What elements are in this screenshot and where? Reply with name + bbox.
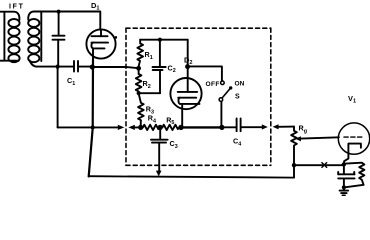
capacitor C3 [159, 127, 161, 139]
wire C1 right to D1 cathode [79, 66, 91, 68]
node Rg bottom tap [292, 163, 296, 167]
capacitor C1 [73, 61, 75, 72]
wire D1 cathode down to bottom rail [89, 59, 93, 177]
ground [340, 190, 349, 192]
svg-text:ON: ON [235, 81, 245, 88]
wire switch feed [188, 66, 222, 80]
cathode V1 [348, 144, 361, 153]
resistor R4 [143, 125, 160, 130]
svg-text:C4: C4 [233, 137, 241, 148]
wire inner top [140, 39, 188, 41]
svg-text:Rg: Rg [299, 124, 308, 135]
node C3 top [158, 125, 163, 130]
capacitor cathode bypass [343, 164, 345, 174]
resistor R1 [137, 40, 143, 67]
stray mark [115, 36, 117, 38]
resistor R3 [138, 95, 144, 125]
svg-text:OFF: OFF [206, 81, 220, 88]
node C2 top [158, 38, 162, 42]
wire bottom rail [89, 176, 294, 177]
capacitor tuning (secondary) [58, 12, 60, 35]
node D2 plate / switch branch [185, 64, 190, 69]
shield box dashed [126, 27, 271, 29]
transformer T1 primary winding [0, 12, 19, 20]
node R3 bottom [138, 125, 143, 130]
wire to Rg [279, 126, 294, 128]
node secondary-bottom junction [56, 65, 60, 69]
arrow into shield left inner [128, 125, 134, 130]
svg-text:IFT: IFT [9, 4, 25, 11]
node R1-R2 [136, 66, 141, 71]
resistor cathode Rk [346, 163, 365, 188]
svg-text:C2: C2 [168, 63, 176, 74]
wire main bus left [58, 126, 118, 128]
node D2 cathode bus [178, 125, 183, 130]
arrow into shield left [118, 125, 125, 130]
node bus crossing [91, 125, 95, 129]
arrow into shield right [262, 124, 268, 129]
wire top bus to D1 [28, 12, 100, 30]
svg-text:D1: D1 [91, 1, 99, 12]
node D1 cathode junction [90, 64, 95, 69]
capacitor C2 [159, 42, 161, 67]
svg-text:V1: V1 [348, 94, 356, 105]
svg-text:C3: C3 [170, 139, 178, 150]
arrow C3 to rail [156, 171, 162, 177]
wire junction to R1R2 node [95, 67, 139, 68]
wire switch to bus [220, 102, 222, 127]
wire secondary-bottom down [57, 67, 59, 128]
wire C4 to shield edge [242, 126, 262, 128]
tube V1 [338, 123, 369, 154]
tube D2 [170, 78, 201, 109]
svg-text:S: S [235, 94, 240, 101]
arrow into shield right outer [273, 124, 279, 129]
node switch bottom [219, 125, 224, 130]
capacitor C4 [236, 119, 238, 132]
node X symbol [322, 163, 327, 168]
wire bus to switch [181, 126, 220, 128]
resistor R5 [162, 125, 179, 130]
transformer T1 secondary winding [28, 19, 39, 27]
wire R2 bottom to C2 bottom [139, 92, 160, 94]
svg-text:R1: R1 [145, 50, 153, 61]
node R2 bottom [137, 91, 141, 95]
wire to C4 [222, 126, 235, 128]
wire X link [296, 164, 342, 166]
switch S on terminal / arm [222, 88, 230, 98]
switch S off terminal [221, 81, 225, 85]
grid V1 dashed [344, 136, 364, 138]
resistor R2 [136, 68, 142, 93]
node tuning-cap top [57, 10, 61, 14]
node ground junction [342, 185, 346, 189]
tube D1 [86, 29, 115, 58]
svg-text:C1: C1 [67, 76, 75, 87]
potentiometer Rg [291, 127, 297, 178]
svg-text:R4: R4 [148, 114, 156, 125]
node V1 cathode junction [342, 162, 346, 166]
wiper arrow Rg [295, 136, 301, 141]
svg-text:R2: R2 [143, 79, 151, 90]
